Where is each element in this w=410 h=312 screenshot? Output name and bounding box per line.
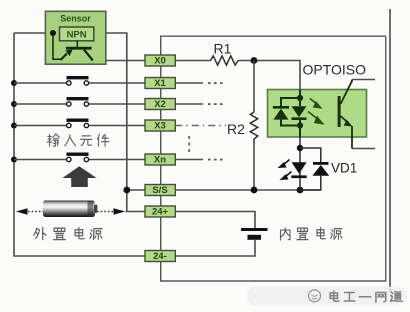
resistor R1 (211, 56, 239, 65)
svg-text:Sensor: Sensor (60, 14, 91, 24)
junction: LED indicator / VD1 top node (297, 145, 303, 151)
svg-text:24+: 24+ (152, 207, 169, 218)
wire: LED chain entry inside optocoupler (299, 90, 301, 107)
junction: LED anode node (297, 95, 303, 101)
svg-text:Xn: Xn (154, 155, 166, 166)
wire: internal supply to terminal 24- (175, 240, 255, 256)
press-action arrow under switch SBn (62, 166, 96, 187)
terminal 24- (145, 251, 175, 263)
resistor R2 (250, 112, 257, 142)
wire: dotted battery negative lead (28, 211, 43, 213)
arrow: external supply negative to 0V bus (16, 208, 28, 215)
junction: supply rail / S/S wire (123, 187, 130, 194)
svg-text:X2: X2 (154, 99, 166, 110)
wire: terminal X2 continuation stub (175, 103, 203, 105)
watermark logo icon (309, 290, 321, 302)
diode: optocoupler reverse-protection diode (anode down) (273, 106, 289, 120)
sensor block (Sensor) (45, 11, 105, 64)
glyph 元 (81, 136, 92, 146)
junction: R2 / S/S wire (251, 187, 258, 194)
wire: switch SBn to terminal Xn (89, 159, 145, 161)
glyph 工 (344, 293, 354, 302)
junction: LED chain / S/S wire (297, 187, 304, 194)
junction: R1 / R2 node (251, 57, 258, 64)
wire: node to resistor R2 (253, 61, 255, 113)
svg-text:NPN: NPN (67, 30, 87, 41)
terminal S/S (145, 185, 175, 197)
wire: bus to switch SBn (14, 159, 67, 161)
switch SB1 (pushbutton, X1 input) (67, 76, 89, 85)
wire: sensor supply rail to terminal S/S (127, 189, 145, 191)
glyph 一 (359, 296, 370, 298)
wire: phototransistor collector stub to PLC internals (352, 79, 375, 81)
diode VD1 (anode down, cathode up) (312, 162, 329, 176)
battery BT1 (external 24V battery, pictorial) (43, 201, 97, 218)
light arrows of LED indicator (278, 160, 292, 181)
svg-text:X3: X3 (154, 121, 166, 132)
wire: arrow to terminal 24+ (126, 211, 146, 213)
glyph 入 (65, 135, 76, 146)
switch SB2 (pushbutton, X2 input) (67, 97, 89, 106)
LED indicator diode (input lamp, anode up) (291, 162, 306, 178)
terminal Xn (145, 154, 175, 166)
svg-text:OPTOISO: OPTOISO (303, 62, 367, 78)
glyph 源 (331, 229, 342, 240)
wire: bus to sensor NPN block (14, 32, 60, 34)
glyph 电 (75, 228, 84, 239)
svg-text:R1: R1 (214, 41, 232, 57)
svg-text:24-: 24- (153, 251, 167, 262)
wire: dotted battery positive lead (97, 211, 114, 213)
junction: LED cathode node (297, 122, 303, 128)
NPN output stage box of sensor (60, 27, 94, 41)
switch SBn (pushbutton, Xn input) (67, 153, 89, 162)
optocoupler U1 body (OPTOISO) (268, 90, 367, 138)
light arrows from LED to phototransistor (308, 99, 325, 125)
svg-text:S/S: S/S (152, 185, 167, 196)
label 外置电源 (external power supply) (34, 228, 102, 240)
wire: terminal S/S to VD1 branch (175, 189, 320, 191)
transistor Q1 (sensor NPN output) (53, 33, 93, 61)
ellipsis dots after X1 (208, 82, 223, 84)
wire: LED chain exit inside optocoupler (299, 120, 301, 137)
wire: switch SB1 to terminal X1 (89, 82, 145, 84)
svg-text:X1: X1 (154, 78, 166, 89)
glyph 电 (330, 291, 339, 301)
vertical ellipsis between X3 and Xn (188, 136, 190, 152)
terminal X3 (145, 120, 175, 132)
svg-text:X0: X0 (154, 56, 166, 67)
right page border line of source screenshot (389, 9, 391, 293)
wire: optocoupler cathode down to S/S wire (299, 137, 301, 190)
wire: switch SB2 to terminal X2 (89, 103, 145, 105)
wire: bus to switch SB3 (14, 125, 67, 127)
battery BT2 (internal 24V supply symbol) (241, 228, 268, 240)
glyph 输 (47, 134, 59, 146)
terminal X0 (145, 55, 175, 67)
wire: sensor emitter output to terminal X0 (92, 60, 145, 62)
glyph 电 (317, 228, 326, 239)
diode: optocoupler emitter LED (anode up) (292, 106, 307, 120)
svg-text:R2: R2 (227, 121, 245, 137)
junction: bus / X2 switch row (11, 101, 17, 107)
ellipsis dots after Xn (208, 159, 223, 161)
switch SB3 (pushbutton, X3 input) (67, 119, 89, 128)
terminal X1 (145, 78, 175, 90)
glyph 通 (391, 292, 403, 302)
PLC enclosure boundary (top, right, bottom edges) (161, 36, 386, 281)
junction: bus / X1 switch row (11, 80, 17, 86)
phototransistor of optocoupler U1 (338, 80, 353, 149)
wire: terminal Xn continuation stub (175, 159, 203, 161)
glyph 外 (34, 228, 46, 240)
wire: branch to reverse diode of optocoupler (281, 98, 300, 126)
wire: 0V bus (left vertical rail down to 24- row) (14, 33, 145, 256)
arrow: external supply positive to terminal 24+ (114, 208, 126, 215)
PLC enclosure boundary (left terminal rail segments) (160, 36, 162, 281)
glyph 源 (90, 229, 102, 240)
wire: bus to switch SB1 (14, 82, 67, 84)
wire: R1 to optocoupler LED chain (238, 61, 300, 90)
glyph 件 (97, 134, 108, 146)
wire: terminal X1 continuation stub (175, 82, 203, 84)
wire: switch SB3 to terminal X3 (89, 125, 145, 127)
glyph 置 (297, 228, 308, 240)
svg-text:VD1: VD1 (331, 161, 357, 176)
wire: sensor supply, NPN block right side down to 24+ row (94, 33, 127, 212)
wire: R2 to S/S rail (253, 142, 255, 190)
label 输入元件 (input devices) (47, 134, 108, 146)
terminal X2 (145, 99, 175, 111)
watermark background band (247, 287, 407, 306)
label 内置电源 (internal power supply) (281, 228, 343, 240)
junction: sensor base node on bus wire (50, 30, 56, 36)
glyph 网 (376, 293, 386, 303)
glyph 置 (54, 228, 66, 240)
ellipsis dots after X2 (208, 103, 223, 105)
wire: VD1 parallel branch (300, 148, 321, 190)
junction: bus / Xn switch row (11, 157, 17, 163)
wire: phototransistor emitter stub to PLC internals (352, 148, 375, 150)
glyph 内 (281, 228, 291, 240)
wire: terminal X3 dash-dot continuation toward R2 (175, 125, 226, 127)
terminal 24+ (145, 206, 175, 218)
junction: bus / X3 switch row (11, 123, 17, 129)
wire: bus to switch SB2 (14, 103, 67, 105)
wire: terminal X0 to resistor R1 (175, 60, 210, 62)
watermark text 电工一网通 (330, 291, 402, 302)
wire: terminal 24+ to internal supply (175, 212, 255, 229)
